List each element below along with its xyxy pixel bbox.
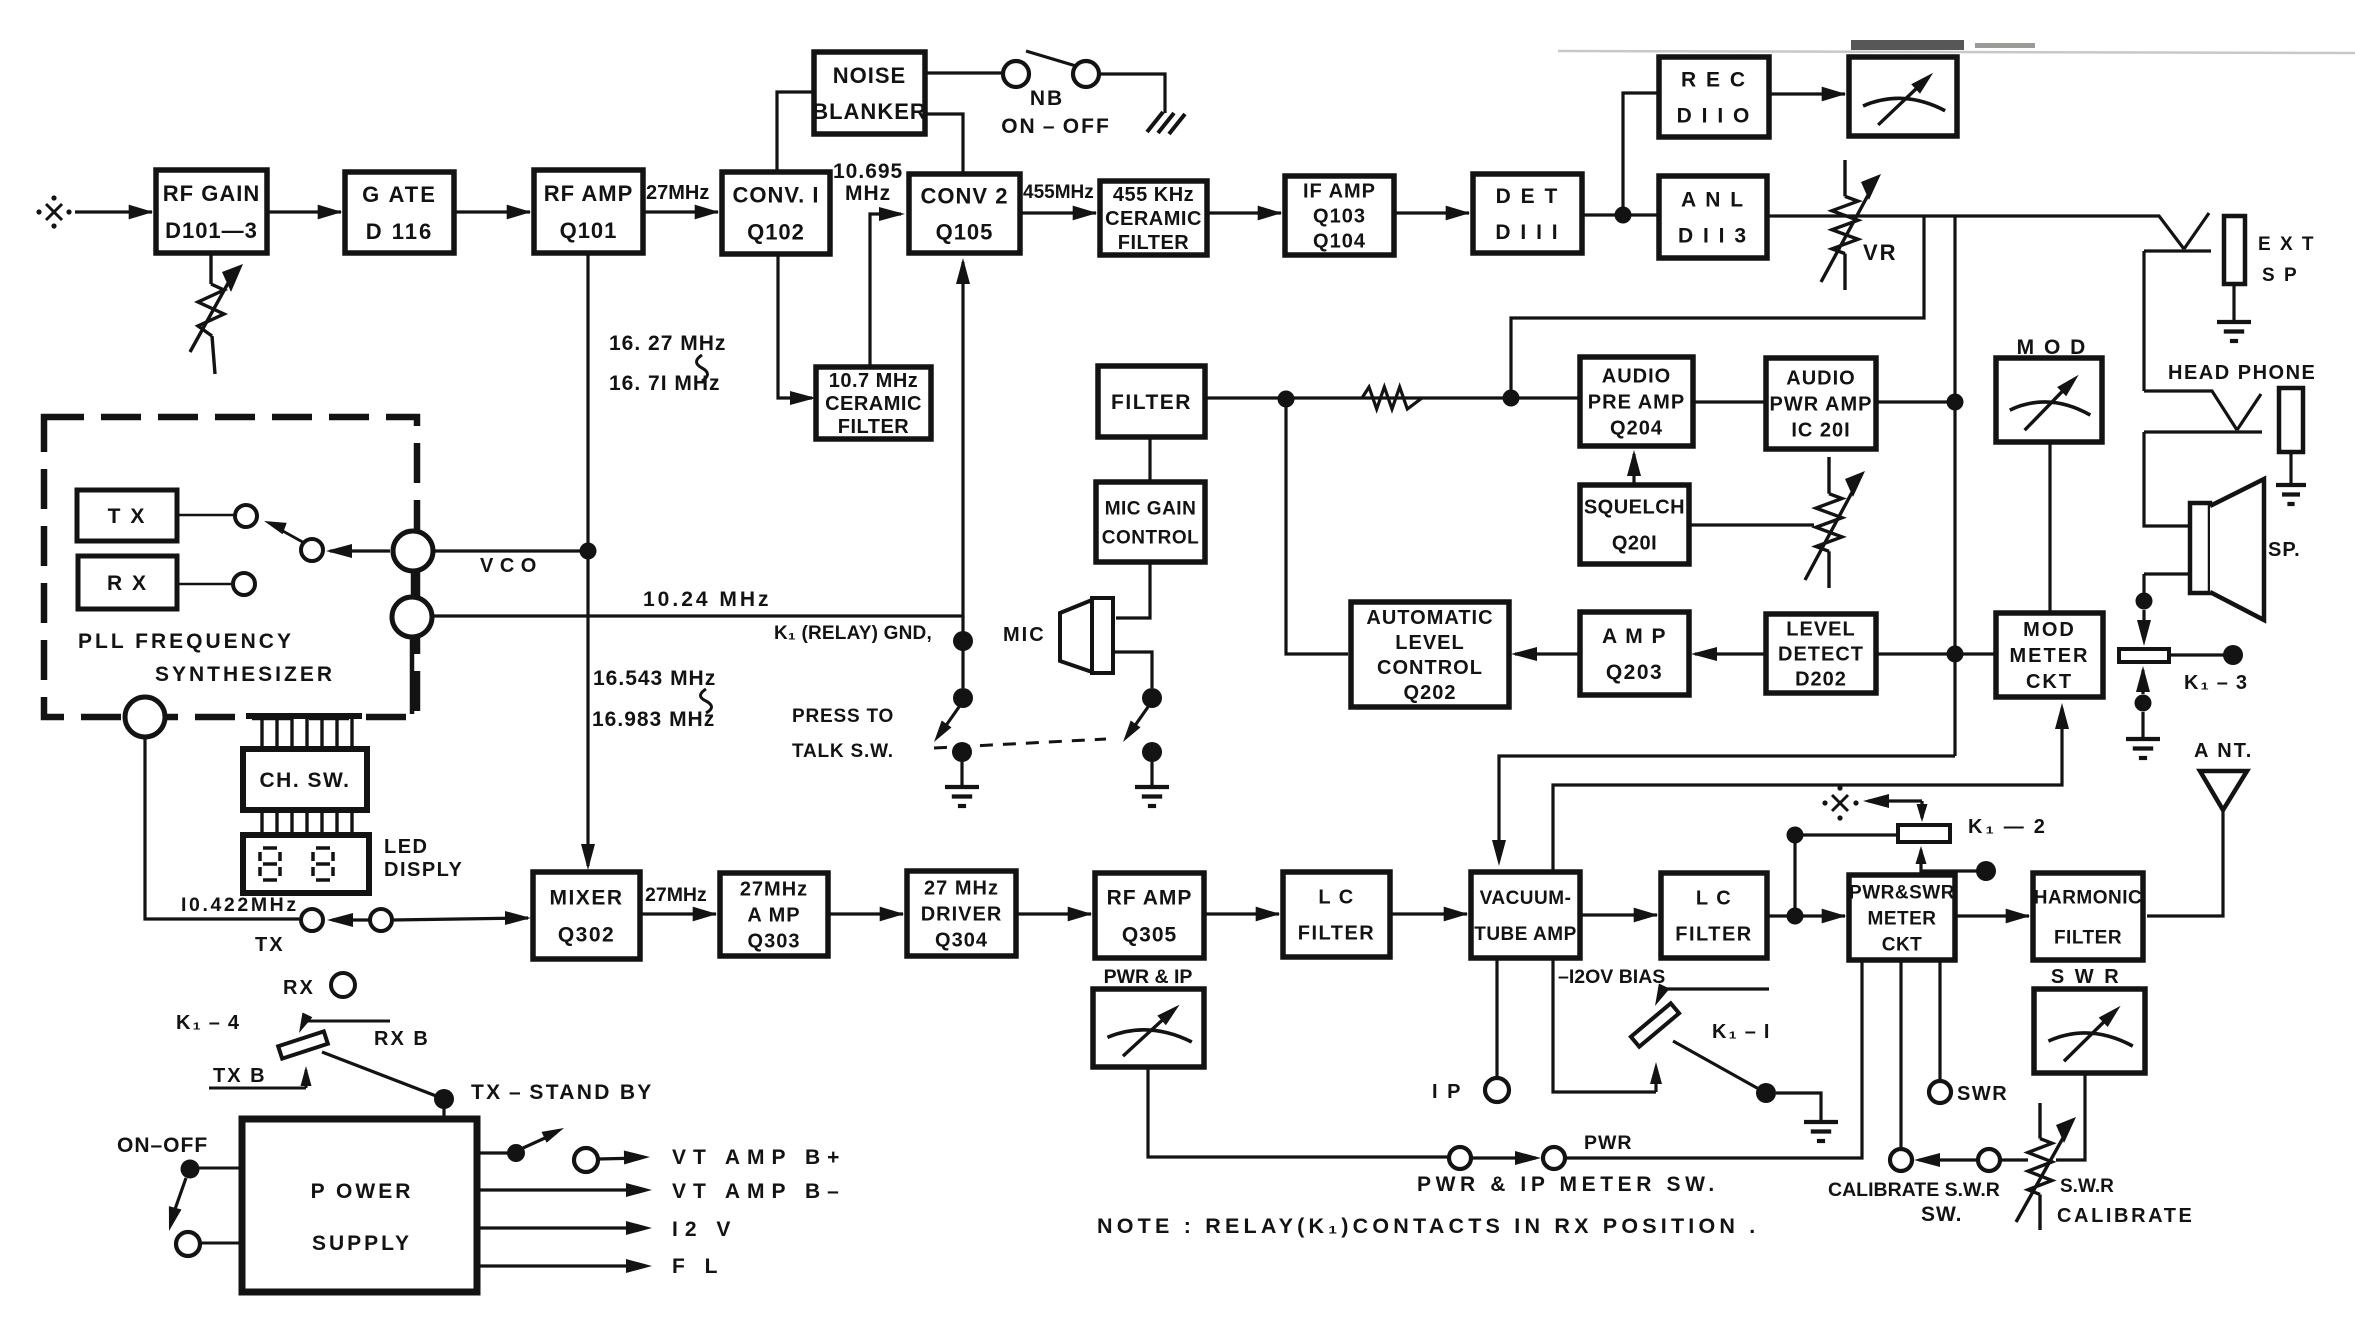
node PLL loop circle: [125, 697, 165, 737]
node X mark K1-2: [1832, 795, 1848, 811]
block 455 KHz CERAMIC FILTER: [1100, 181, 1207, 255]
svg-text:I P: I P: [1432, 1081, 1462, 1103]
svg-text:K₁ (RELAY) GND,: K₁ (RELAY) GND,: [774, 623, 932, 644]
block SQUELCH Q201: [1580, 485, 1689, 564]
block TX: [77, 490, 177, 541]
svg-text:CALIBRATE S.W.R: CALIBRATE S.W.R: [1828, 1179, 2000, 1201]
wire junction up to REC D110: [1623, 93, 1659, 215]
block VACUUM-TUBE AMP: [1471, 872, 1580, 958]
block L C FILTER 2: [1661, 873, 1767, 958]
wire REC to S-meter: [1769, 92, 1845, 95]
svg-text:RX B: RX B: [374, 1028, 430, 1050]
svg-text:Q103: Q103: [1313, 206, 1366, 228]
svg-text:CALIBRATE: CALIBRATE: [2057, 1205, 2194, 1227]
wire RF AMP to CONV.1: [643, 210, 718, 213]
svg-text:F L: F L: [672, 1255, 725, 1278]
wire LC FILTER 2 to PWR&SWR METER CKT: [1767, 914, 1845, 917]
wire IP stem: [1495, 958, 1498, 1078]
wire speaker bus to vacuum tube amp: [1499, 756, 1955, 860]
wire K1-3 to terminal: [2169, 653, 2224, 656]
svg-text:TX – STAND BY: TX – STAND BY: [471, 1081, 654, 1104]
block AUDIO PWR AMP IC 201: [1766, 358, 1876, 449]
svg-text:PWR AMP: PWR AMP: [1770, 394, 1873, 416]
svg-text:METER: METER: [1868, 908, 1937, 929]
svg-text:16. 27 MHz: 16. 27 MHz: [609, 332, 726, 355]
meter SWR meter: [2034, 989, 2145, 1073]
wire FILTER to MIC GAIN CONTROL: [1148, 437, 1151, 482]
svg-text:D 116: D 116: [366, 219, 434, 244]
svg-text:D E T: D E T: [1496, 185, 1560, 208]
wire CONV.1 bottom to 10.7MHz filter: [778, 254, 812, 398]
wire node to POWER SUPPLY: [442, 1108, 445, 1119]
svg-text:MHz: MHz: [845, 182, 891, 205]
wire LEVEL DETECT to MOD METER CKT: [1876, 652, 1996, 655]
svg-text:SW.: SW.: [1921, 1203, 1963, 1226]
wire below divider to PLL border: [410, 637, 415, 714]
block L C FILTER: [1283, 872, 1390, 957]
block AUTOMATIC LEVEL CONTROL Q202: [1351, 602, 1509, 707]
block 10.7 MHz CERAMIC FILTER: [816, 367, 931, 439]
wire TX box to contact: [177, 514, 235, 517]
wire speaker bus vertical: [1953, 216, 1956, 756]
svg-text:10.24 MHz: 10.24 MHz: [643, 588, 772, 611]
svg-text:LEVEL: LEVEL: [1786, 619, 1855, 641]
potentiometer VR volume: [1843, 160, 1846, 196]
switch RX contact: [233, 573, 255, 595]
wire arrow to contact B: [1472, 1156, 1536, 1159]
block GATE D116: [345, 172, 454, 253]
seven-segment digit 8 (tens): [263, 846, 277, 850]
svg-text:SUPPLY: SUPPLY: [312, 1232, 412, 1255]
svg-text:SP.: SP.: [2268, 539, 2301, 561]
speaker SP: [2190, 503, 2210, 593]
wire vacuum amp top to MOD METER CKT bottom: [1553, 708, 2062, 872]
wire SQUELCH to squelch pot: [1689, 523, 1814, 526]
block AMP Q203: [1580, 612, 1689, 695]
wire RF AMP Q305 to LC FILTER: [1204, 912, 1279, 915]
wire FILTER output to audio bus: [1205, 396, 1580, 399]
svg-text:455 KHz: 455 KHz: [1113, 184, 1194, 206]
seven-segment digit 8 (units): [316, 846, 330, 850]
switch TX contact: [235, 505, 257, 527]
node K1-3 top: [2136, 593, 2153, 610]
wire DET to ANL: [1582, 213, 1659, 216]
node PTT ground 2: [1142, 742, 1162, 762]
svg-text:RF GAIN: RF GAIN: [163, 181, 260, 206]
svg-text:FILTER: FILTER: [1675, 924, 1753, 946]
svg-text:G ATE: G ATE: [362, 182, 437, 207]
wire AMP to ALC: [1515, 652, 1580, 655]
bus CH.SW comb top bar: [246, 713, 362, 719]
svg-text:Q105: Q105: [936, 219, 994, 244]
dashed enclosure PLL FREQUENCY SYNTHESIZER: [44, 417, 417, 717]
svg-text:Q303: Q303: [748, 931, 801, 953]
wire TXB contact: [209, 1087, 306, 1090]
wire EXT SP down to head phone: [2142, 251, 2145, 391]
wire 27MHz AMP to DRIVER: [828, 912, 903, 915]
switch PLL TX/RX selector blade: [272, 525, 308, 545]
meter MOD meter: [1996, 358, 2102, 442]
block NOISE BLANKER: [814, 52, 925, 134]
node audio bus junction right: [1503, 390, 1520, 407]
wire MIC GAIN to microphone: [1116, 562, 1150, 618]
svg-text:SYNTHESIZER: SYNTHESIZER: [155, 663, 335, 686]
svg-text:HEAD PHONE: HEAD PHONE: [2168, 362, 2316, 384]
svg-text:I0.422MHz: I0.422MHz: [181, 894, 299, 916]
wire audio junction down to ALC input: [1286, 399, 1348, 654]
svg-text:FILTER: FILTER: [2054, 927, 2122, 948]
svg-text:AUTOMATIC: AUTOMATIC: [1366, 607, 1493, 629]
block RF GAIN D101-3: [156, 170, 267, 253]
svg-text:CONTROL: CONTROL: [1377, 657, 1483, 679]
svg-text:27MHz: 27MHz: [645, 884, 707, 906]
wire PS output VT AMP B-: [477, 1188, 644, 1191]
jack HEAD PHONE plug: [2144, 391, 2237, 430]
svg-text:TX: TX: [255, 934, 285, 956]
svg-text:CONV. I: CONV. I: [733, 182, 820, 207]
node speaker bus at PWR AMP: [1947, 394, 1964, 411]
svg-text:IF AMP: IF AMP: [1303, 181, 1376, 203]
svg-text:NB: NB: [1030, 87, 1064, 110]
scan artifact grey streak top right: [1558, 51, 2355, 53]
svg-text:ON–OFF: ON–OFF: [117, 1134, 208, 1157]
switch PTT pole 2: [1142, 688, 1162, 708]
switch RX contact wire: [177, 583, 233, 586]
wire speaker bottom to K1-3: [2144, 572, 2190, 575]
node K1-3 ground node: [2135, 695, 2152, 712]
node SWR terminal: [1929, 1081, 1951, 1103]
svg-text:A N L: A N L: [1681, 189, 1745, 212]
svg-text:VACUUM-: VACUUM-: [1480, 888, 1572, 909]
ground PTT 2: [1135, 785, 1169, 789]
wire 10.7 filter top to CONV 2 input: [870, 214, 901, 367]
wire PRE AMP to PWR AMP: [1693, 400, 1766, 403]
resistor audio series: [1362, 387, 1422, 409]
wire calibrate contact to pot: [2000, 1158, 2028, 1161]
wire DRIVER to RF AMP Q305: [1016, 912, 1091, 915]
svg-text:VT AMP B+: VT AMP B+: [672, 1146, 846, 1169]
svg-text:27MHz: 27MHz: [740, 879, 808, 901]
wire head phone to speaker top: [2144, 432, 2190, 526]
squiggle range mark: [697, 355, 708, 381]
wire VCO circle to divider circle: [411, 571, 416, 598]
block MOD METER CKT: [1996, 613, 2103, 697]
block IF AMP Q103 Q104: [1285, 176, 1394, 255]
svg-text:S P: S P: [2262, 265, 2299, 286]
block CONV.1 Q102: [722, 172, 830, 254]
node PTT ground 1: [952, 742, 972, 762]
wire K1-2 bottom contact: [1916, 846, 1927, 864]
node speaker bus at level detect: [1947, 646, 1964, 663]
svg-text:Q304: Q304: [935, 930, 988, 952]
svg-text:Q305: Q305: [1122, 924, 1177, 947]
node K1-2 lower terminal: [1976, 861, 1996, 881]
node K1-3 terminal: [2223, 645, 2243, 665]
wire contact B to contact A with arrow: [332, 918, 392, 921]
svg-text:SWR: SWR: [1957, 1083, 2008, 1105]
node VCO line joins 16MHz line: [580, 543, 597, 560]
svg-text:I2 V: I2 V: [672, 1218, 737, 1241]
node K1-1 ground node: [1756, 1083, 1776, 1103]
node divider circle: [392, 597, 432, 637]
relay contact K1-2: [1898, 825, 1950, 842]
microphone MIC: [1060, 600, 1092, 672]
svg-text:K₁ – I: K₁ – I: [1712, 1021, 1771, 1043]
wire RXB contact: [306, 1020, 390, 1023]
switch NB ON-OFF contact 1: [1003, 61, 1029, 87]
svg-text:CERAMIC: CERAMIC: [1105, 208, 1202, 230]
svg-text:T X: T X: [108, 505, 147, 528]
jack HEAD PHONE body: [2279, 388, 2303, 452]
block DET D111: [1473, 174, 1582, 253]
svg-text:VR: VR: [1863, 240, 1898, 265]
svg-text:–I2OV BIAS: –I2OV BIAS: [1558, 966, 1665, 988]
bus comb wires to CH.SW: [260, 719, 263, 749]
svg-text:D101—3: D101—3: [165, 218, 258, 243]
meter PWR & IP meter: [1093, 989, 1204, 1067]
wire PS output FL: [477, 1264, 644, 1267]
block ANL D113: [1659, 176, 1767, 258]
switch TX line contact B: [370, 909, 392, 931]
wire PWR&SWR to HARMONIC FILTER: [1955, 914, 2029, 917]
node IP terminal: [1485, 1078, 1509, 1102]
wire VCO output to x588 node: [433, 549, 588, 552]
svg-text:FILTER: FILTER: [838, 416, 910, 438]
wire MOD meter to MOD METER CKT: [2048, 442, 2051, 613]
jack EXT SP plug: [2146, 216, 2184, 249]
switch calibrate contact A: [1890, 1149, 1912, 1171]
svg-text:SQUELCH: SQUELCH: [1584, 497, 1685, 519]
svg-text:PLL FREQUENCY: PLL FREQUENCY: [78, 630, 294, 653]
wire SQUELCH to PRE AMP: [1632, 454, 1635, 485]
svg-text:PWR: PWR: [1584, 1132, 1633, 1154]
svg-text:RX: RX: [283, 977, 315, 999]
wire pole to PS: [199, 1167, 242, 1170]
svg-text:CKT: CKT: [2026, 671, 2073, 693]
svg-text:16. 7I MHz: 16. 7I MHz: [609, 372, 721, 395]
node PTT top: [953, 631, 973, 651]
ground PTT 1: [945, 785, 979, 789]
wire ANL/VR feedback down-left to audio bus: [1511, 216, 1924, 390]
wire K1-2 top to X: [1920, 801, 1923, 818]
block RF AMP Q305: [1095, 873, 1204, 958]
switch ON-OFF pole: [181, 1160, 200, 1179]
ground K1-1: [1804, 1120, 1838, 1124]
svg-text:Q102: Q102: [747, 219, 805, 244]
wire PWR&SWR CKT to calibrate switch: [1899, 960, 1902, 1148]
wire PWR AMP output to speaker bus node: [1876, 400, 1955, 403]
node TX-STAND BY: [434, 1089, 454, 1109]
wire to ground 2: [1150, 762, 1153, 786]
svg-text:Q20I: Q20I: [1612, 533, 1657, 555]
svg-text:D202: D202: [1795, 669, 1847, 691]
wire antenna to harmonic filter: [2147, 810, 2223, 916]
svg-text:DISPLY: DISPLY: [384, 859, 463, 881]
wire TX contacts to MIXER: [392, 918, 528, 920]
wire CONV.1 top to NOISE BLANKER left: [777, 92, 814, 172]
wire RF GAIN to GATE: [267, 210, 341, 213]
svg-text:Q204: Q204: [1610, 418, 1663, 440]
svg-text:S W R: S W R: [2051, 966, 2121, 988]
svg-text:R X: R X: [107, 572, 148, 595]
node RX spare contact: [331, 973, 355, 997]
svg-text:PWR&SWR: PWR&SWR: [1849, 882, 1955, 903]
block RF AMP Q101: [534, 170, 643, 253]
wire -120V bias from vacuum amp: [1553, 958, 1656, 1092]
switch calibrate contact B with arrow: [1919, 1158, 1978, 1161]
wire PWR&IP meter to meter switch: [1148, 1067, 1447, 1157]
svg-text:CERAMIC: CERAMIC: [825, 393, 922, 415]
svg-text:FILTER: FILTER: [1111, 391, 1192, 414]
svg-text:L C: L C: [1696, 888, 1732, 910]
svg-text:CONV 2: CONV 2: [921, 183, 1009, 208]
switch PLL selector pivot: [301, 539, 323, 561]
block CH. SW.: [243, 749, 367, 810]
svg-text:Q203: Q203: [1606, 661, 1663, 684]
svg-text:MIC: MIC: [1003, 624, 1046, 646]
block 27 MHz DRIVER Q304: [907, 871, 1016, 956]
switch PTT pole 1: [953, 688, 973, 708]
wire 10.24 MHz divider output to CONV 2: [432, 262, 963, 616]
svg-text:K₁ – 3: K₁ – 3: [2184, 672, 2249, 694]
ground NB chassis: [1147, 112, 1163, 132]
ground K1-3: [2126, 737, 2160, 741]
svg-text:27MHz: 27MHz: [646, 182, 709, 204]
block POWER SUPPLY: [242, 1119, 477, 1292]
switch ON-OFF contact: [176, 1232, 200, 1256]
block MIXER Q302: [533, 872, 640, 959]
svg-text:PWR & IP: PWR & IP: [1104, 966, 1193, 988]
potentiometer SQUELCH level: [1827, 457, 1830, 494]
svg-text:HARMONIC: HARMONIC: [2034, 887, 2143, 908]
block REC D110: [1659, 57, 1769, 137]
svg-text:A M P: A M P: [1602, 625, 1667, 648]
svg-text:CH. SW.: CH. SW.: [259, 769, 350, 792]
node audio bus junction left: [1278, 391, 1295, 408]
node junction DET-ANL to REC: [1615, 207, 1632, 224]
svg-text:DRIVER: DRIVER: [921, 904, 1003, 926]
svg-text:S.W.R: S.W.R: [2060, 1176, 2114, 1197]
svg-text:CKT: CKT: [1882, 934, 1923, 955]
switch PWR&IP meter SW contact A: [1449, 1147, 1471, 1169]
wire K1-3 node to ground: [2141, 712, 2144, 738]
svg-text:16.543 MHz: 16.543 MHz: [593, 667, 716, 690]
wire K1-1 node to ground: [1776, 1093, 1821, 1120]
svg-text:CONTROL: CONTROL: [1102, 527, 1199, 548]
svg-text:Q104: Q104: [1313, 231, 1366, 253]
svg-text:27 MHz: 27 MHz: [924, 878, 999, 900]
wire microphone to PTT switch: [1113, 652, 1152, 688]
svg-text:PWR & IP METER SW.: PWR & IP METER SW.: [1417, 1173, 1719, 1196]
wire NOISE BLANKER to NB switch: [925, 71, 1003, 74]
svg-text:RF AMP: RF AMP: [1107, 887, 1193, 910]
svg-text:MIC GAIN: MIC GAIN: [1105, 498, 1197, 519]
wire RF AMP down to MIXER Q302: [586, 253, 589, 866]
wire PLL circle down to TX mixer line: [145, 737, 299, 919]
svg-text:16.983 MHz: 16.983 MHz: [592, 708, 715, 731]
wire PTT chain: [961, 616, 964, 688]
svg-text:RF AMP: RF AMP: [544, 181, 634, 206]
node antenna input X: [46, 204, 62, 220]
switch NB blade: [1026, 51, 1076, 66]
node K1-2 left: [1787, 827, 1804, 844]
svg-text:455MHz: 455MHz: [1023, 182, 1094, 203]
bus comb wires CH.SW to LED display: [260, 810, 263, 835]
wire EXT SP jack to ground: [2232, 284, 2235, 320]
wire TX line node up to K1-2: [1793, 835, 1796, 916]
switch TX line contact A: [301, 909, 323, 931]
wire GATE to RF AMP: [454, 210, 530, 213]
svg-text:K₁ — 2: K₁ — 2: [1968, 816, 2048, 838]
block RX: [78, 556, 177, 609]
svg-text:10.7 MHz: 10.7 MHz: [829, 370, 919, 392]
antenna ANT: [2200, 771, 2247, 810]
switch NB ON-OFF contact 2: [1073, 61, 1099, 87]
svg-text:D I I O: D I I O: [1677, 105, 1752, 128]
switch PWR&IP meter SW contact B: [1543, 1147, 1565, 1169]
potentiometer RF GAIN control: [209, 253, 212, 284]
svg-text:R E C: R E C: [1681, 69, 1747, 92]
svg-text:AUDIO: AUDIO: [1786, 368, 1855, 390]
svg-text:VCO: VCO: [480, 555, 543, 577]
block HARMONIC FILTER: [2033, 873, 2143, 960]
node VCO circle: [393, 531, 433, 571]
block CONV 2 Q105: [909, 174, 1020, 253]
ground EXT SP: [2217, 320, 2251, 324]
svg-text:NOISE: NOISE: [833, 63, 906, 88]
wire antenna to RF GAIN: [75, 210, 152, 213]
block 27MHz AMP Q303: [720, 873, 828, 956]
svg-text:Q101: Q101: [560, 218, 618, 243]
squiggle range mark 2: [701, 689, 712, 713]
wire K1-4 lever to TX-STAND BY node: [322, 1052, 444, 1099]
wire VACUUM TUBE AMP to LC FILTER 2: [1580, 913, 1657, 916]
svg-text:Q302: Q302: [558, 924, 615, 947]
block LED DISPLY: [243, 835, 369, 893]
svg-text:DETECT: DETECT: [1778, 644, 1864, 666]
block LEVEL DETECT D202: [1766, 614, 1876, 693]
svg-text:PRESS TO: PRESS TO: [792, 706, 894, 727]
wire arrow into K1-3: [2142, 610, 2145, 636]
wire 455 filter to IF AMP: [1207, 211, 1281, 214]
relay contact K1-3: [2119, 649, 2169, 662]
block AUDIO PRE AMP Q204: [1580, 357, 1693, 446]
wire meter switch to PWR&SWR CKT: [1565, 960, 1862, 1158]
jack EXT SP body: [2224, 216, 2245, 284]
wire K1-3 bottom arrow: [2136, 666, 2150, 692]
wire SWR meter to calibrate pot: [2056, 1073, 2085, 1160]
svg-text:D I I 3: D I I 3: [1678, 225, 1748, 248]
svg-text:VT AMP B–: VT AMP B–: [672, 1180, 846, 1203]
wire LEVEL DETECT to AMP: [1695, 652, 1766, 655]
wire LC FILTER to VACUUM TUBE AMP: [1390, 912, 1467, 915]
wire NB switch to ground: [1099, 74, 1165, 113]
svg-text:A NT.: A NT.: [2194, 740, 2253, 762]
switch ON-OFF lever: [174, 1178, 186, 1212]
svg-text:E X T: E X T: [2258, 234, 2316, 255]
svg-text:AUDIO: AUDIO: [1602, 366, 1671, 388]
relay contact K1-1: [1631, 1003, 1679, 1046]
wire PWR&SWR CKT to SWR terminal: [1938, 960, 1941, 1080]
svg-text:FILTER: FILTER: [1298, 923, 1376, 945]
svg-text:10.695: 10.695: [833, 160, 903, 183]
wire PS output 12V: [477, 1226, 644, 1229]
wire contact to PS: [200, 1242, 242, 1245]
svg-text:K₁ – 4: K₁ – 4: [176, 1012, 241, 1034]
svg-text:TX B: TX B: [213, 1065, 267, 1087]
svg-text:TUBE AMP: TUBE AMP: [1474, 924, 1577, 945]
svg-text:BLANKER: BLANKER: [812, 99, 927, 124]
